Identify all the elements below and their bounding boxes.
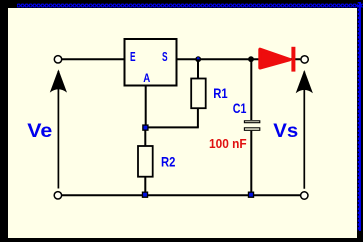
svg-text:Ve: Ve [27, 120, 52, 142]
selection chain border right [358, 2, 361, 231]
capacitor C1 bottom plate [244, 128, 259, 131]
resistor R2 body [138, 146, 153, 177]
Vs voltage arrow line [303, 72, 305, 189]
svg-text:A: A [143, 71, 150, 85]
label Vs [273, 120, 298, 142]
svg-text:S: S [162, 49, 168, 64]
terminal output bottom [301, 192, 308, 199]
pin label S [162, 49, 168, 64]
svg-text:R2: R2 [161, 154, 176, 170]
node junction C1/ground rail [248, 192, 254, 198]
pin label A [143, 71, 150, 85]
pin label E [130, 49, 136, 64]
Ve voltage arrow line [57, 71, 59, 189]
terminal input bottom [54, 192, 61, 199]
node junction output/C1 [248, 56, 254, 62]
svg-text:100 nF: 100 nF [209, 136, 247, 151]
svg-text:C1: C1 [233, 100, 247, 116]
svg-text:R1: R1 [213, 85, 228, 101]
wire output node down to C1 [250, 59, 252, 120]
Vs voltage arrowhead [296, 70, 313, 93]
terminal output top [301, 56, 308, 63]
selection chain border top [17, 4, 363, 8]
resistor R1 body [191, 79, 206, 109]
diode D1 triangle [260, 49, 290, 67]
svg-text:E: E [130, 49, 136, 64]
diode D1 cathode bar [291, 47, 295, 72]
capacitor C1 top plate [244, 121, 259, 123]
node junction A/R1/R2 [142, 124, 148, 130]
wire regulator A pin down [145, 86, 147, 126]
Ve voltage arrowhead [50, 69, 67, 92]
node junction R2/ground rail [142, 192, 148, 198]
label C1 [233, 100, 247, 116]
wire A node to R2 [144, 130, 146, 147]
terminal input top [54, 56, 61, 63]
regulator U1 body [125, 39, 177, 86]
wire R2 bottom lead [144, 176, 146, 195]
wire input terminal to regulator E [62, 58, 124, 60]
wire regulator S to output terminal [178, 58, 301, 60]
wire R1 bottom lead [197, 108, 199, 127]
label Ve [27, 120, 52, 142]
svg-text:Vs: Vs [273, 120, 298, 142]
wire S node down to R1 [197, 59, 199, 79]
wire R1 to A node [145, 126, 199, 128]
label R2 [161, 154, 176, 170]
ground rail wire [62, 194, 301, 196]
wire C1 bottom to ground rail [250, 131, 252, 195]
value label 100 nF [209, 136, 247, 151]
label R1 [213, 85, 228, 101]
node junction at S/R1 [195, 56, 201, 62]
